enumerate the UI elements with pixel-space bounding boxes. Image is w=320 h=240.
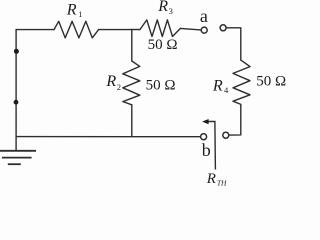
svg-text:R: R xyxy=(206,171,216,187)
wire top middle xyxy=(99,29,140,31)
terminal right bottom circle xyxy=(223,132,229,138)
svg-text:50 Ω: 50 Ω xyxy=(146,77,176,93)
svg-text:R: R xyxy=(157,0,168,15)
wire right branch top xyxy=(227,28,241,60)
svg-text:50 Ω: 50 Ω xyxy=(148,37,178,53)
ground xyxy=(0,151,36,164)
wire top left horizontal xyxy=(16,29,54,31)
wire right branch bottom xyxy=(229,104,240,135)
junction dot lower xyxy=(14,100,19,105)
svg-text:2: 2 xyxy=(117,82,121,92)
resistor R2 xyxy=(123,61,140,105)
svg-text:R: R xyxy=(105,73,116,90)
terminal right top circle xyxy=(220,25,226,31)
arrow R_TH pointer xyxy=(208,122,215,170)
wire R2 top lead xyxy=(131,30,133,62)
svg-text:a: a xyxy=(200,6,208,26)
wire to node a xyxy=(180,28,200,30)
resistor R3 xyxy=(140,20,180,37)
svg-text:R: R xyxy=(212,77,223,94)
junction dot upper xyxy=(14,49,19,54)
svg-text:50 Ω: 50 Ω xyxy=(256,74,286,90)
wire bottom horizontal xyxy=(16,136,200,138)
svg-text:R: R xyxy=(66,2,77,19)
resistor R4 xyxy=(233,60,250,104)
terminal a circle xyxy=(201,27,207,33)
wire R2 bottom lead xyxy=(131,105,133,137)
resistor R1 xyxy=(54,21,99,38)
svg-text:TH: TH xyxy=(217,178,227,187)
svg-text:4: 4 xyxy=(224,85,229,95)
svg-text:1: 1 xyxy=(78,9,82,19)
svg-text:b: b xyxy=(202,140,211,160)
svg-text:3: 3 xyxy=(169,6,173,16)
terminal b circle xyxy=(201,134,207,140)
wire left vertical xyxy=(15,30,17,151)
